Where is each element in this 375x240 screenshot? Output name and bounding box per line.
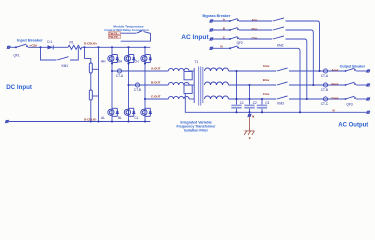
wire B to QF2 [213,29,230,31]
terminal AC-A [209,20,213,23]
wire C to QF2 [213,38,230,40]
wire bypass C drop [286,39,307,99]
IGBT AH [108,55,119,63]
svg-text:CT-B: CT-B [321,88,328,92]
wire phase C out [145,98,168,100]
terminal N tap [248,112,252,117]
svg-text:R1: R1 [70,41,74,45]
svg-text:Bout: Bout [332,82,339,86]
terminal AC-C [209,38,213,41]
wire [10,46,15,48]
wire DC- bus [9,121,151,123]
svg-text:C3: C3 [265,101,269,105]
breaker QF3 pole A [345,68,356,72]
capacitor bank C-top [89,63,92,73]
wire row C to breaker [289,98,345,100]
IGBT CL [141,108,152,116]
svg-text:Aout: Aout [332,68,339,72]
svg-text:Binv: Binv [263,78,270,82]
wire row C inverter output [229,98,277,100]
junction [127,84,129,86]
capacitor bank C-bottom [89,90,92,100]
svg-text:CT-A: CT-A [116,74,124,78]
contactor KM2 pole C [273,36,284,39]
primary winding A [168,68,189,71]
IGBT CH [141,55,152,63]
svg-text:T1: T1 [195,60,199,64]
IGBT BH [124,55,135,63]
svg-text:D-1: D-1 [47,40,52,44]
junction [111,46,113,48]
transformer core [199,67,203,106]
neutral shield wire [185,94,236,113]
terminal DC- [5,120,9,123]
junction [127,62,129,64]
svg-text:QF1: QF1 [14,53,20,57]
CT CT-A [117,69,121,73]
junction [127,46,129,48]
svg-text:AC Input: AC Input [181,34,209,41]
earth wire [249,117,251,131]
svg-text:Cinv: Cinv [263,92,270,96]
junction [144,120,146,122]
CT CT-C out [323,97,327,101]
wire phase B out [129,84,169,86]
wire B to KM2 [239,29,272,31]
terminal AC-B [209,29,213,32]
wire row B inverter output [229,84,277,86]
junction [248,98,250,100]
filter cap C3 leads [257,99,267,112]
CT CT-A out [323,69,327,73]
svg-text:N: N [252,114,254,118]
IGBT BL [124,108,135,116]
wire [90,100,92,122]
contactor KM2 pole B [273,27,284,30]
junction [97,120,99,122]
junction [144,98,146,100]
svg-text:TH-T2: TH-T2 [109,35,118,39]
primary delta link 1 [184,72,192,80]
junction [111,120,113,122]
breaker QF3 pole B [345,82,356,86]
svg-text:BL: BL [118,116,122,120]
wire B to terminal [356,84,367,86]
svg-text:C2: C2 [253,101,257,105]
wire C to KM2 [239,38,272,40]
wire row A inverter output [229,70,277,72]
terminal AC-N [209,47,213,50]
wire A to QF2 [213,20,230,22]
svg-text:C-OUT: C-OUT [151,95,161,99]
leg C wire [144,47,146,121]
wire DC+ bus [85,46,151,48]
wire phase A out [112,70,168,72]
terminal out B [366,84,370,87]
contactor KM3 row C [277,96,288,99]
svg-text:D-CBUS+: D-CBUS+ [84,42,98,46]
svg-text:Cout: Cout [332,96,339,100]
wire A to terminal [356,70,367,72]
contactor KM3 row B [277,82,288,85]
junction [261,98,263,100]
junction [312,84,314,86]
thermal switch wire loop [121,31,151,42]
breaker QF3 pole C [345,96,356,100]
breaker QF2 pole B [229,28,238,31]
wire bypass A drop [286,21,320,71]
junction [144,46,146,48]
svg-text:CT-C: CT-C [321,102,329,106]
svg-text:KM1: KM1 [62,64,69,68]
wire C to terminal [356,98,367,100]
svg-text:N: N [333,108,335,112]
svg-text:Isolation Filter: Isolation Filter [184,129,209,133]
wire bypass B drop [286,30,314,85]
breaker QF2 pole C [229,37,238,40]
junction [144,62,146,64]
svg-text:C1: C1 [240,101,244,105]
wire row A to breaker [289,70,345,72]
wire A to KM2 [239,20,272,22]
junction [261,111,263,113]
secondary winding A [205,68,229,71]
schematic content [5,14,370,140]
svg-text:AH: AH [101,59,106,63]
leg B wire [128,47,130,121]
junction [97,46,99,48]
ground [244,131,254,135]
resistor R1 [68,45,82,49]
contactor KM3 row A [277,68,288,71]
junction [111,70,113,72]
junction [83,46,85,48]
breaker QF2 pole A [229,19,238,22]
svg-text:Bypass Breaker: Bypass Breaker [203,14,231,18]
CT CT-B [135,83,139,87]
junction [306,98,308,100]
primary winding B [168,82,189,85]
svg-text:CL: CL [135,116,139,120]
CT CT-B out [323,83,327,87]
terminal out N [366,111,370,114]
svg-text:KM2: KM2 [277,43,284,47]
contactor KM2 pole A [273,18,284,21]
svg-text:B-OUT: B-OUT [151,81,161,85]
wire [90,73,92,90]
thermal switch TH-T1 [108,31,120,35]
svg-text:QF3: QF3 [347,102,353,106]
junction [235,70,237,72]
svg-text:QF2: QF2 [237,41,243,45]
terminal out A [366,70,370,73]
thermal switch TH-T2 [108,35,120,39]
svg-text:i-CBI: i-CBI [30,44,37,48]
svg-text:DC Input: DC Input [6,84,32,91]
junction [235,98,237,100]
junction [235,111,237,113]
breaker QF1 [15,44,27,48]
svg-text:BH: BH [118,59,123,63]
svg-text:A-OUT: A-OUT [151,67,161,71]
tap wire [92,95,98,97]
wire to bus [82,46,85,48]
junction [90,120,92,122]
svg-text:CH: CH [134,59,139,63]
svg-text:KM3: KM3 [277,101,284,105]
DC bus capacitor feed wire [85,47,91,63]
contactor KM1 precharge branch [41,47,79,60]
junction [318,70,320,72]
svg-text:CT-A: CT-A [321,74,329,78]
wire N to QF2 [213,47,230,49]
svg-text:Input Breaker: Input Breaker [17,37,43,42]
primary delta link 2 [184,85,192,93]
wire row B to breaker [289,84,345,86]
svg-text:Output Breaker: Output Breaker [340,64,366,68]
filter cap C2 leads [244,85,254,112]
wire [54,46,69,48]
breaker QF2 pole N [229,46,238,49]
leg A wire [111,47,113,121]
junction neutral tap [248,111,250,113]
svg-text:Ainv: Ainv [263,64,270,68]
wire neutral out [237,111,367,113]
terminal DC+ [7,46,11,49]
wire [28,46,48,48]
primary bus wire [189,68,194,103]
filter cap C1 leads [231,71,241,112]
junction [111,62,113,64]
bleeder rail wire [98,47,100,121]
junction [248,84,250,86]
IGBT AL [108,108,119,116]
primary winding C [168,96,189,99]
junction [299,111,301,113]
svg-text:E: E [249,136,251,140]
diode D1 [48,45,54,49]
tap wire [92,68,98,70]
secondary winding C [205,96,229,99]
svg-text:AC Output: AC Output [338,122,368,128]
terminal out C [366,98,370,101]
secondary winding B [205,82,229,85]
junction [127,120,129,122]
wire neutral drop [239,48,300,112]
svg-text:AL: AL [101,116,105,120]
svg-text:CT-B: CT-B [134,88,141,92]
junction [39,46,41,48]
